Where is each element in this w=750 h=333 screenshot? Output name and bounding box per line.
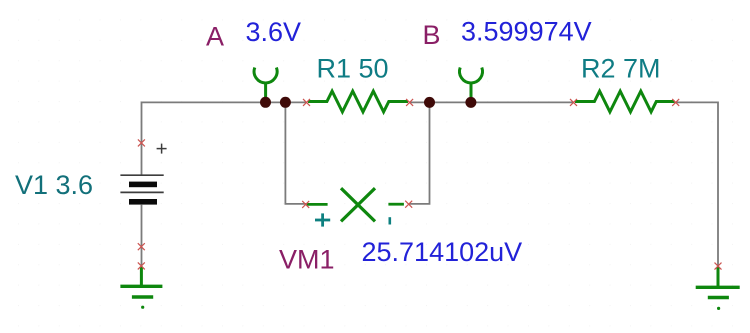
junction dot node B (wire to VM1) bbox=[424, 97, 435, 108]
probe A bbox=[254, 68, 277, 101]
ground (left) bbox=[120, 267, 162, 298]
resistor R2 bbox=[575, 91, 675, 112]
wire node B down to VM1 right bbox=[409, 102, 430, 203]
voltmeter VM1 bbox=[307, 188, 404, 221]
svg-text:R1 50: R1 50 bbox=[317, 54, 389, 84]
pin cross R2 left bbox=[570, 99, 577, 106]
junction dot node A (wire to VM1) bbox=[280, 97, 291, 108]
svg-text:25.714102uV: 25.714102uV bbox=[362, 237, 523, 267]
value label R2 7M bbox=[581, 54, 661, 84]
resistor R1 bbox=[308, 91, 408, 112]
wire node B to R2 bbox=[410, 101, 574, 103]
VM1 minus mark bbox=[389, 217, 392, 224]
battery plus polarity mark bbox=[157, 144, 167, 154]
value label V1 3.6 bbox=[15, 170, 93, 200]
probe B bbox=[460, 68, 483, 101]
VM1 plus mark bbox=[315, 213, 330, 226]
pin cross VM1 right bbox=[405, 201, 412, 208]
pin cross R1 right bbox=[406, 99, 413, 106]
svg-text:V1 3.6: V1 3.6 bbox=[15, 170, 93, 200]
junction dot node A (probe) bbox=[260, 97, 271, 108]
label VM1 bbox=[279, 245, 335, 275]
ground (right) bbox=[696, 267, 740, 298]
svg-text:VM1: VM1 bbox=[279, 245, 335, 275]
wire node A down to VM1 left bbox=[285, 102, 306, 203]
probe B reading 3.599974V bbox=[461, 17, 592, 47]
pin cross left ground bbox=[138, 262, 145, 269]
svg-text:3.599974V: 3.599974V bbox=[461, 17, 592, 47]
svg-text:B: B bbox=[423, 20, 441, 50]
battery V1 bbox=[120, 175, 163, 204]
wire from node A corner to battery top bbox=[142, 102, 307, 175]
svg-text:3.6V: 3.6V bbox=[246, 17, 302, 47]
ground (right) dot bbox=[717, 307, 720, 310]
svg-text:A: A bbox=[206, 22, 224, 52]
VM1 reading 25.714102uV bbox=[362, 237, 523, 267]
wire battery bottom to left ground bbox=[141, 205, 143, 267]
node label A bbox=[206, 22, 224, 52]
pin cross R1 left bbox=[303, 99, 310, 106]
pin cross R2 right bbox=[672, 99, 679, 106]
ground (left) dot bbox=[141, 306, 144, 309]
pin cross V1 bottom bbox=[138, 243, 145, 250]
node label B bbox=[423, 20, 441, 50]
wire R2 right to right ground bbox=[676, 102, 718, 266]
probe A reading 3.6V bbox=[246, 17, 302, 47]
value label R1 50 bbox=[317, 54, 389, 84]
pin cross right ground bbox=[715, 263, 722, 270]
pin cross V1 top bbox=[138, 139, 145, 146]
junction dot node B (probe) bbox=[465, 97, 476, 108]
svg-text:R2 7M: R2 7M bbox=[581, 54, 661, 84]
pin cross VM1 left bbox=[302, 201, 309, 208]
